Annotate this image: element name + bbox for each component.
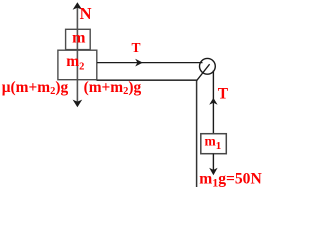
svg-text:(m+m2)g: (m+m2)g [84, 79, 142, 97]
svg-text:T: T [132, 40, 141, 55]
svg-text:μ(m+m2)g: μ(m+m2)g [2, 79, 69, 97]
svg-text:T: T [218, 85, 229, 102]
svg-text:m1g=50N: m1g=50N [199, 170, 262, 189]
svg-text:m: m [72, 30, 86, 47]
svg-text:N: N [80, 4, 92, 23]
